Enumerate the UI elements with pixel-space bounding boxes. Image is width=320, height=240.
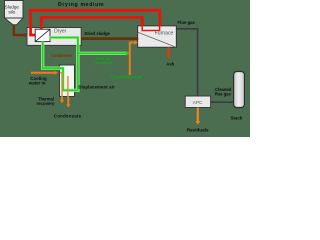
svg-text:Displacement air: Displacement air: [78, 85, 115, 90]
svg-text:APC: APC: [193, 100, 203, 106]
svg-text:Condensate: Condensate: [54, 113, 82, 118]
svg-text:Stack: Stack: [231, 116, 243, 121]
svg-text:silo: silo: [8, 10, 15, 15]
svg-text:Residuals: Residuals: [187, 128, 209, 133]
svg-text:Dried sludge: Dried sludge: [85, 31, 111, 36]
svg-text:Dryer: Dryer: [54, 28, 67, 34]
svg-text:Drying medium: Drying medium: [58, 2, 104, 8]
svg-text:(exhaust): (exhaust): [94, 60, 112, 65]
svg-text:Flue gas: Flue gas: [178, 20, 196, 25]
svg-text:Condenser: Condenser: [51, 53, 73, 58]
svg-text:water in: water in: [28, 81, 46, 86]
svg-text:flue gas: flue gas: [215, 92, 231, 97]
svg-text:recovery: recovery: [37, 101, 56, 106]
svg-text:Furnace: Furnace: [155, 31, 174, 37]
svg-text:Ash: Ash: [166, 62, 174, 67]
svg-text:Combustion air: Combustion air: [111, 74, 142, 79]
